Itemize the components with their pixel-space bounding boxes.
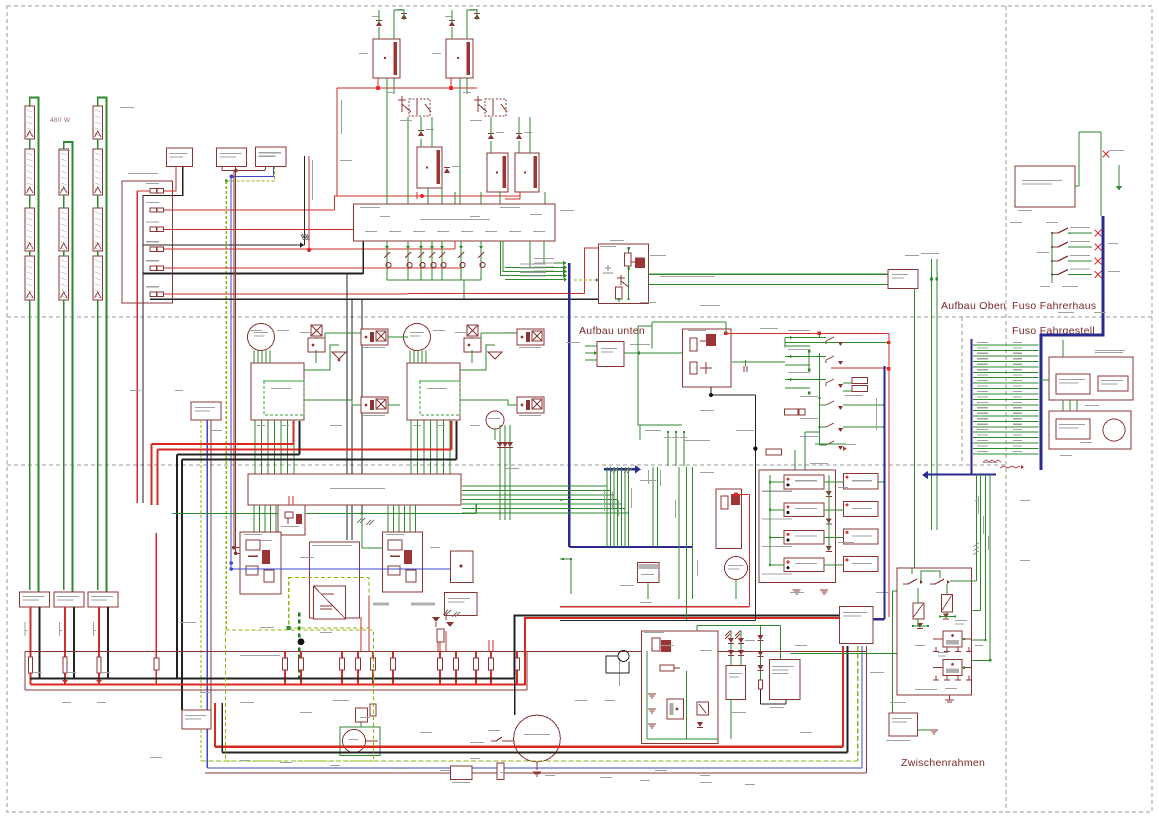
svg-text:Zwischenrahmen: Zwischenrahmen xyxy=(901,757,985,769)
svg-text:Aufbau unten: Aufbau unten xyxy=(579,325,645,337)
svg-text:Fuso Fahrerhaus: Fuso Fahrerhaus xyxy=(1012,300,1096,312)
svg-text:Aufbau Oben: Aufbau Oben xyxy=(941,300,1006,312)
svg-text:480 W: 480 W xyxy=(50,117,71,124)
